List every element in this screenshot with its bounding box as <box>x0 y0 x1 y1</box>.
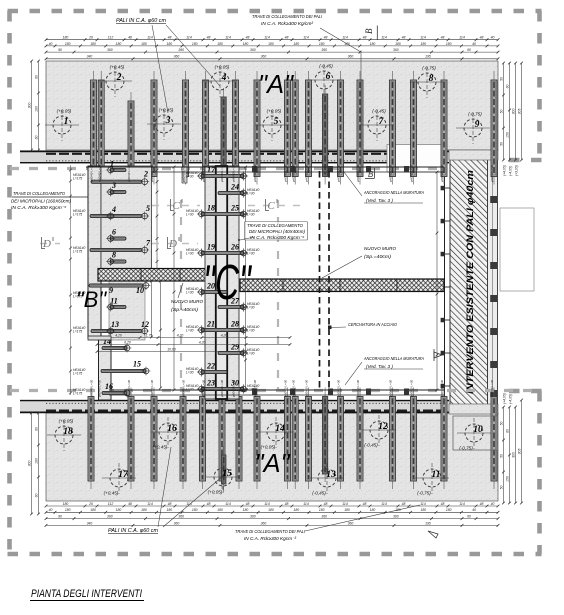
tiny rotated level labels top right <box>503 165 519 176</box>
svg-text:28: 28 <box>230 320 239 329</box>
pile top band 15 x=357 <box>357 71 363 185</box>
pile bottom band 15 x=357 <box>357 388 363 490</box>
pile circle 16 <box>151 417 185 450</box>
left interior stippled slab <box>101 166 152 271</box>
corridor wall stub <box>182 167 187 183</box>
svg-text:21: 21 <box>206 320 215 329</box>
svg-text:114: 114 <box>420 36 426 40</box>
svg-text:(+0,45): (+0,45) <box>110 65 125 70</box>
svg-text:114: 114 <box>186 36 192 40</box>
svg-text:50: 50 <box>499 486 503 490</box>
svg-text:50: 50 <box>499 77 503 81</box>
svg-text:48: 48 <box>285 36 289 40</box>
pile circle 18 <box>47 419 81 452</box>
svg-text:TRAVE DI COLLEGAMENTO DEI PALI: TRAVE DI COLLEGAMENTO DEI PALI <box>252 14 323 19</box>
pile circle 13 <box>310 463 344 496</box>
svg-text:150: 150 <box>505 132 509 138</box>
svg-text:(-0,75): (-0,75) <box>422 66 436 71</box>
svg-text:26: 26 <box>88 36 93 40</box>
micropile 13 bar <box>91 327 149 336</box>
pile bottom band 9 x=254 <box>254 388 260 490</box>
svg-text:(Sp.≈40cm): (Sp.≈40cm) <box>171 307 199 312</box>
svg-text:114: 114 <box>303 36 309 40</box>
svg-text:22: 22 <box>206 362 215 371</box>
svg-text:φ60/40 L=30: φ60/40 L=30 <box>150 380 154 397</box>
svg-text:(+4,05): (+4,05) <box>503 165 507 176</box>
pile circle 17 <box>102 463 136 496</box>
svg-text:17: 17 <box>118 470 129 480</box>
micropile length label <box>73 209 85 217</box>
leader line from trave label <box>320 28 361 166</box>
svg-text:L=175: L=175 <box>73 372 82 376</box>
svg-text:B: B <box>364 28 374 34</box>
svg-text:φ60/40 L=30: φ60/40 L=30 <box>490 380 494 397</box>
svg-text:48: 48 <box>480 36 484 40</box>
top dimension row 3 <box>45 51 500 54</box>
svg-text:180: 180 <box>217 508 223 512</box>
svg-text:4,20: 4,20 <box>177 333 184 337</box>
svg-text:PALI IN C.A. φ60 cm: PALI IN C.A. φ60 cm <box>108 528 159 534</box>
svg-text:9: 9 <box>475 120 480 130</box>
interior top wall double line <box>86 166 444 168</box>
svg-text:180: 180 <box>395 42 401 46</box>
svg-text:(-4,05): (-4,05) <box>509 166 513 176</box>
svg-text:φ60/40 L=30: φ60/40 L=30 <box>127 165 131 182</box>
svg-text:IN C.A. Rck≥300 Kgcm⁻²: IN C.A. Rck≥300 Kgcm⁻² <box>250 235 305 240</box>
svg-text:180: 180 <box>243 42 249 46</box>
interior vertical dim left of strip <box>173 166 176 392</box>
svg-text:6: 6 <box>112 228 116 237</box>
bottom pile band (stippled concrete) <box>46 413 498 501</box>
joint lines left new wall <box>140 269 142 282</box>
svg-text:19: 19 <box>207 243 215 252</box>
svg-text:48: 48 <box>441 502 445 506</box>
svg-text:2: 2 <box>116 73 122 83</box>
svg-text:TRAVE DI COLLEGAMENTO: TRAVE DI COLLEGAMENTO <box>13 191 66 196</box>
wall step connector left wall <box>88 336 111 340</box>
svg-text:180: 180 <box>370 508 376 512</box>
svg-text:300: 300 <box>27 103 31 109</box>
svg-text:(+0,05): (+0,05) <box>261 445 276 450</box>
pile top band 12 x=305.5 <box>306 71 312 185</box>
micropile 24 bar <box>218 188 248 197</box>
svg-text:60: 60 <box>34 75 38 79</box>
pile circle 10 <box>457 418 491 451</box>
pile circle 5 <box>255 109 289 142</box>
svg-text:180: 180 <box>446 508 452 512</box>
pile top band 18 x=441 <box>441 71 447 185</box>
new wall crosshatched band right <box>240 279 444 292</box>
leader line bottom to pile 16 <box>158 447 171 527</box>
label TRAVE DI COLLEGAMENTO bottom <box>235 529 306 541</box>
pile bottom band 12 x=305.5 <box>306 388 312 490</box>
svg-text:φ60/40 L=30: φ60/40 L=30 <box>202 165 206 182</box>
label TRAVE DI COLLEGAMENTO DEI MICROPALI center <box>245 222 308 241</box>
svg-text:4,20: 4,20 <box>221 333 228 337</box>
pile top band 13 x=322.5 <box>323 85 328 185</box>
svg-text:180: 180 <box>116 508 122 512</box>
micropile 1 bar <box>106 166 126 175</box>
svg-text:300: 300 <box>511 109 515 115</box>
svg-text:φ60/40 L=30: φ60/40 L=30 <box>410 380 414 397</box>
central existing wall double line <box>216 166 227 399</box>
svg-text:8: 8 <box>112 251 116 260</box>
svg-text:C: C <box>267 200 275 212</box>
svg-text:180: 180 <box>420 508 426 512</box>
top dimension row 4 <box>45 57 500 60</box>
svg-text:15: 15 <box>222 469 232 479</box>
band patch below hatch <box>449 404 498 414</box>
svg-text:(+0,05): (+0,05) <box>208 490 223 495</box>
micropile length label <box>73 388 85 396</box>
svg-text:23: 23 <box>206 379 215 388</box>
svg-text:180: 180 <box>166 42 172 46</box>
svg-text:180: 180 <box>268 508 274 512</box>
svg-text:180: 180 <box>65 508 71 512</box>
svg-text:50: 50 <box>499 454 503 458</box>
pile bottom band 2 x=128 <box>128 388 134 490</box>
svg-text:180: 180 <box>63 502 69 506</box>
svg-text:φ60/40 L=30: φ60/40 L=30 <box>490 165 494 182</box>
pile top band 6 x=202.5 <box>203 71 209 185</box>
svg-text:5: 5 <box>274 117 279 127</box>
pile circle 3 <box>147 108 181 141</box>
svg-text:48: 48 <box>324 36 328 40</box>
anchor plate room side 2 <box>441 219 445 224</box>
micropile 3 bar <box>106 188 126 197</box>
svg-text:L=30: L=30 <box>247 329 255 333</box>
svg-text:24: 24 <box>230 183 239 192</box>
pile top band 17 x=410.5 <box>411 71 417 185</box>
svg-text:L=30: L=30 <box>186 175 194 179</box>
left vertical dims bottom band <box>30 412 33 516</box>
micropile 16 bar <box>102 389 131 398</box>
anchor block right strip 4 <box>490 295 497 302</box>
pile circle 8 <box>410 66 444 99</box>
svg-text:180: 180 <box>293 42 299 46</box>
svg-text:10: 10 <box>473 425 483 435</box>
svg-text:φ60/40 L=30: φ60/40 L=30 <box>253 165 257 182</box>
interior dim row 1 <box>96 336 292 339</box>
pile bottom band 11 x=292.2 <box>292 388 298 490</box>
anchor block right strip 6 <box>490 361 497 368</box>
svg-text:195: 195 <box>425 521 431 525</box>
svg-text:114: 114 <box>225 36 231 40</box>
svg-text:114: 114 <box>420 502 426 506</box>
svg-text:φ60/40 L=30: φ60/40 L=30 <box>305 165 309 182</box>
pile top band 9 x=254 <box>254 71 260 185</box>
anchor plate bottom wall 2 <box>290 389 295 396</box>
svg-text:PALI IN C.A. φ60 cm: PALI IN C.A. φ60 cm <box>116 18 167 24</box>
label NUOVO MURO left <box>171 299 203 312</box>
label ANCORAGGIO NELLA MURATURA lower <box>363 356 424 369</box>
pile top band 1 x=90.5 <box>91 71 97 185</box>
svg-text:L=175: L=175 <box>73 392 82 396</box>
new wall crosshatched band left <box>98 269 206 282</box>
svg-text:48: 48 <box>441 36 445 40</box>
pile bottom band 13 x=322.5 <box>323 388 328 483</box>
pile top band 4 x=151 <box>151 71 157 185</box>
svg-text:18: 18 <box>207 204 215 213</box>
svg-text:114: 114 <box>459 502 465 506</box>
anchor plate top wall 1 <box>252 166 257 173</box>
micropile 8 bar <box>106 257 126 266</box>
anchor plate bottom wall 1 <box>252 389 257 396</box>
svg-text:PIANTA DEGLI INTERVENTI: PIANTA DEGLI INTERVENTI <box>31 588 142 600</box>
svg-text:305: 305 <box>517 109 521 115</box>
svg-text:φ60/40 L=30: φ60/40 L=30 <box>202 380 206 397</box>
svg-text:180: 180 <box>141 42 147 46</box>
right pile strip of existing wall <box>488 160 498 405</box>
micropile 21 bar <box>197 325 248 334</box>
pile bottom band 19 x=491 <box>491 388 497 490</box>
anchor plate bottom wall 3 <box>328 389 333 396</box>
svg-text:IN C.A. Rck≥300 Kg/cm²: IN C.A. Rck≥300 Kg/cm² <box>261 21 313 26</box>
svg-text:(Sp.=40cm): (Sp.=40cm) <box>364 254 392 259</box>
anchor block right strip 3 <box>490 262 497 269</box>
grid marker D left <box>168 237 180 249</box>
svg-text:150: 150 <box>505 476 509 482</box>
svg-text:360: 360 <box>178 515 184 519</box>
svg-text:48: 48 <box>168 502 172 506</box>
bottom dimension row 3 <box>45 517 500 520</box>
svg-text:114: 114 <box>459 36 465 40</box>
dashed site boundary left <box>7 11 12 554</box>
svg-text:φ60/40 L=30: φ60/40 L=30 <box>90 165 94 182</box>
left margin vertical dim with row ticks <box>69 165 72 395</box>
svg-text:114: 114 <box>381 36 387 40</box>
svg-text:48: 48 <box>402 36 406 40</box>
anchor plate top wall 3 <box>328 166 333 173</box>
pile top band 10 x=284.5 <box>285 71 291 185</box>
left micropile beam strip lower <box>99 338 112 400</box>
svg-text:φ60/40 L=30: φ60/40 L=30 <box>253 380 257 397</box>
right vertical dims bottom band <box>502 406 505 505</box>
svg-text:11: 11 <box>432 470 441 480</box>
interior bottom wall double line <box>109 389 444 391</box>
svg-text:160: 160 <box>34 458 38 464</box>
svg-text:90: 90 <box>58 515 62 519</box>
svg-text:(+0,05): (+0,05) <box>59 419 74 424</box>
top dimension row 1 <box>45 38 500 41</box>
svg-text:(-0,75): (-0,75) <box>468 112 482 117</box>
svg-text:"B": "B" <box>76 287 107 312</box>
micropile 18 bar <box>197 209 248 218</box>
label TRAVE DI COLLEGAMENTO top <box>252 14 323 26</box>
svg-text:(+0,45): (+0,45) <box>153 445 168 450</box>
svg-text:φ60/40 L=30: φ60/40 L=30 <box>284 380 288 397</box>
grid dash row D markers <box>40 243 60 245</box>
svg-text:φ60/40 L=30: φ60/40 L=30 <box>440 380 444 397</box>
pile circle 11 <box>415 463 449 496</box>
svg-text:360: 360 <box>321 48 327 52</box>
left lower stippled slab <box>109 281 145 340</box>
svg-text:40: 40 <box>491 502 495 506</box>
svg-text:48: 48 <box>168 36 172 40</box>
svg-text:5: 5 <box>146 204 150 213</box>
grid dashed vertical line x=181 <box>180 200 182 392</box>
svg-text:48: 48 <box>128 36 132 40</box>
pile circle 6 <box>307 64 341 97</box>
dashed site boundary right notch top <box>500 158 542 163</box>
svg-text:180: 180 <box>141 508 147 512</box>
svg-text:φ60/40 L=30: φ60/40 L=30 <box>182 380 186 397</box>
svg-text:1: 1 <box>64 117 69 127</box>
svg-text:DEI MICROPALI (160X60cm): DEI MICROPALI (160X60cm) <box>11 199 72 204</box>
dashed site boundary right lower <box>537 391 542 554</box>
svg-text:40: 40 <box>49 508 53 512</box>
svg-text:NUOVO MURO: NUOVO MURO <box>364 246 396 251</box>
svg-text:φ60/40 L=30: φ60/40 L=30 <box>356 380 360 397</box>
svg-text:360: 360 <box>107 48 113 52</box>
section flag right wall <box>434 352 442 358</box>
leader line trave micropali center <box>240 237 254 240</box>
svg-text:305: 305 <box>517 449 521 455</box>
svg-text:(-0,45): (-0,45) <box>319 64 333 69</box>
svg-text:φ60/40 L=30: φ60/40 L=30 <box>291 380 295 397</box>
svg-text:φ60/40 L=30: φ60/40 L=30 <box>389 380 393 397</box>
svg-text:340: 340 <box>87 521 93 525</box>
micropile 20 bar <box>197 287 227 296</box>
anchor plate bottom wall 5 <box>404 389 409 396</box>
band patch above hatch <box>449 150 498 160</box>
svg-text:114: 114 <box>342 502 348 506</box>
svg-text:48: 48 <box>246 36 250 40</box>
micropile 17 bar <box>197 171 248 180</box>
grid marker D far left <box>42 237 54 249</box>
svg-text:(+0,05): (+0,05) <box>267 109 282 114</box>
svg-text:(-0,45): (-0,45) <box>364 443 378 448</box>
pile bottom band 4 x=180 <box>180 388 186 490</box>
svg-text:14: 14 <box>275 424 285 434</box>
svg-text:NUOVO MURO: NUOVO MURO <box>171 299 203 304</box>
micropile 7 bar <box>90 246 149 255</box>
svg-text:300: 300 <box>511 452 515 458</box>
svg-text:48: 48 <box>246 502 250 506</box>
micropile 27 bar <box>218 302 248 311</box>
hatched wall inner edge line <box>444 166 446 397</box>
svg-text:180: 180 <box>116 42 122 46</box>
svg-text:D: D <box>168 238 177 250</box>
svg-text:φ60/40 L=30: φ60/40 L=30 <box>97 165 101 182</box>
svg-text:L=175: L=175 <box>73 177 82 181</box>
svg-text:48: 48 <box>285 502 289 506</box>
pile top band 3 x=128 <box>128 92 134 185</box>
svg-text:D: D <box>42 238 51 250</box>
svg-text:"A": "A" <box>254 450 290 478</box>
svg-text:TRAVE DI COLLEGAMENTO DEI PALI: TRAVE DI COLLEGAMENTO DEI PALI <box>235 529 306 534</box>
svg-text:48: 48 <box>402 502 406 506</box>
grid dashed line at top of interior <box>10 167 444 170</box>
pile bottom band 7 x=221.5 <box>222 446 226 492</box>
pile bottom band 5 x=199.5 <box>200 388 206 490</box>
svg-text:60: 60 <box>467 48 471 52</box>
anchor plate room side 4 <box>441 285 445 290</box>
svg-text:φ60/40 L=30: φ60/40 L=30 <box>220 380 224 397</box>
svg-text:360: 360 <box>250 515 256 519</box>
marker triangle bottom right <box>428 531 438 538</box>
corridor vertical dim with row ticks <box>156 166 159 270</box>
pile bottom band 1 x=88 <box>88 388 94 490</box>
pile bottom band 3 x=151 <box>151 388 157 490</box>
svg-text:φ60/40 L=30: φ60/40 L=30 <box>305 380 309 397</box>
svg-text:50: 50 <box>499 422 503 426</box>
svg-text:(-4,05): (-4,05) <box>509 394 513 404</box>
svg-text:6,20: 6,20 <box>124 340 131 344</box>
anchor plate room side 7 <box>441 384 445 389</box>
svg-text:180: 180 <box>420 42 426 46</box>
svg-text:114: 114 <box>186 502 192 506</box>
svg-text:48: 48 <box>363 36 367 40</box>
svg-text:11: 11 <box>110 297 118 306</box>
pile circle 9 <box>456 112 490 145</box>
micropile 2 bar <box>91 177 149 186</box>
micropile 15 bar <box>101 367 150 376</box>
pile top band 5 x=182.5 <box>183 71 189 185</box>
svg-text:180: 180 <box>90 42 96 46</box>
svg-text:195: 195 <box>425 55 431 59</box>
svg-text:L=30: L=30 <box>186 291 194 295</box>
svg-text:IN C.A. Rck≥300 Kgcm⁻²: IN C.A. Rck≥300 Kgcm⁻² <box>11 205 67 210</box>
svg-text:φ60/40 L=30: φ60/40 L=30 <box>356 165 360 182</box>
svg-text:L=30: L=30 <box>247 352 255 356</box>
svg-text:90: 90 <box>58 48 62 52</box>
svg-text:180: 180 <box>293 508 299 512</box>
svg-text:φ60/40 L=30: φ60/40 L=30 <box>284 165 288 182</box>
pile top band 16 x=389.5 <box>390 71 396 185</box>
svg-text:48: 48 <box>128 502 132 506</box>
grid marker C left <box>171 199 183 211</box>
anchor plate bottom wall 4 <box>366 389 371 396</box>
micropile 29 bar <box>218 348 248 357</box>
anchor plate room side 1 <box>441 186 445 191</box>
svg-text:360: 360 <box>348 521 354 525</box>
bottom dimension row 2 <box>45 511 500 514</box>
pile circle 1 <box>45 109 79 142</box>
svg-text:B: B <box>368 170 374 179</box>
micropile 9 bar <box>89 281 150 290</box>
svg-text:φ60/40 L=30: φ60/40 L=30 <box>182 165 186 182</box>
wall tie line 1 <box>445 187 451 189</box>
grid dashed vertical line x=278 <box>277 200 279 392</box>
pile circle 7 <box>360 109 394 142</box>
svg-text:360: 360 <box>321 515 327 519</box>
svg-text:ANCORAGGIO NELLA MURATURA: ANCORAGGIO NELLA MURATURA <box>363 356 424 361</box>
svg-text:(+0,05): (+0,05) <box>57 109 72 114</box>
svg-text:114: 114 <box>264 36 270 40</box>
svg-text:360: 360 <box>261 521 267 525</box>
svg-text:114: 114 <box>342 36 348 40</box>
svg-text:φ60/40 L=30: φ60/40 L=30 <box>440 165 444 182</box>
svg-text:"C": "C" <box>203 255 252 310</box>
svg-text:φ60/40 L=30: φ60/40 L=30 <box>90 380 94 397</box>
pile circle 4 <box>203 65 237 98</box>
label TRAVE DI COLLEGAMENTO DEI MICROPALI left <box>11 191 72 210</box>
svg-text:300: 300 <box>27 461 31 467</box>
svg-text:160: 160 <box>34 106 38 112</box>
cerchiatura steel dashed line 2 <box>328 171 330 390</box>
svg-text:48: 48 <box>480 502 484 506</box>
svg-text:180: 180 <box>446 42 452 46</box>
svg-text:60: 60 <box>34 427 38 431</box>
label NUOVO MURO right <box>364 246 396 259</box>
svg-text:L=30: L=30 <box>247 192 255 196</box>
svg-text:(-0,45): (-0,45) <box>372 109 386 114</box>
svg-text:(-0,45): (-0,45) <box>312 491 326 496</box>
dashed site boundary right notch bottom <box>500 389 542 394</box>
dashed site boundary top <box>8 9 542 14</box>
svg-text:16: 16 <box>167 424 177 434</box>
